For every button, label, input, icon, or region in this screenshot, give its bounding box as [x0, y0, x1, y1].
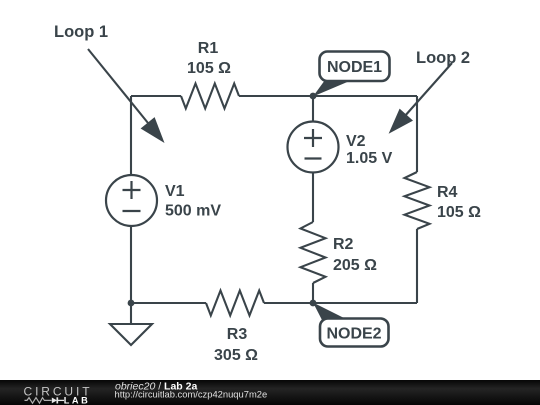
voltage source V2 — [288, 122, 393, 173]
footer bar — [0, 380, 540, 405]
svg-text:R2: R2 — [333, 236, 354, 253]
svg-text:105 Ω: 105 Ω — [187, 60, 231, 77]
wire bottom-left horizontal (ground node to R3) — [131, 302, 206, 304]
annotation Loop 1 arrow — [88, 49, 165, 143]
wire middle branch between V2 and R2 — [312, 172, 314, 222]
resistor R1 — [181, 40, 239, 109]
svg-text:105 Ω: 105 Ω — [437, 204, 481, 221]
svg-text:205 Ω: 205 Ω — [333, 257, 377, 274]
svg-text:Loop 1: Loop 1 — [54, 23, 108, 41]
resistor R3 — [206, 291, 264, 365]
node dot NODE1 junction — [310, 93, 317, 100]
svg-text:R4: R4 — [437, 184, 458, 201]
wire right branch lower (R4 to bottom-right corner) — [416, 229, 418, 303]
wire right branch upper (top-right corner to R4) — [416, 96, 418, 172]
svg-text:LAB: LAB — [64, 396, 91, 405]
node dot ground junction — [128, 300, 135, 307]
node NODE2 callout — [313, 303, 389, 347]
wire middle branch bottom (R2 to bottom wire) — [312, 283, 314, 303]
voltage source V1 — [106, 175, 221, 226]
svg-text:V1: V1 — [165, 183, 185, 200]
wire top horizontal from R1 to top-right corner — [239, 95, 417, 97]
node NODE1 callout — [313, 52, 390, 97]
svg-text:NODE1: NODE1 — [327, 59, 382, 76]
svg-text:1.05 V: 1.05 V — [346, 150, 393, 167]
annotation Loop 2 arrow — [389, 63, 452, 134]
svg-text:http://circuitlab.com/czp42nuq: http://circuitlab.com/czp42nuqu7m2e — [115, 389, 268, 400]
svg-text:Loop 2: Loop 2 — [416, 49, 470, 67]
svg-text:NODE2: NODE2 — [326, 326, 381, 343]
ground — [110, 303, 152, 345]
svg-text:R1: R1 — [198, 40, 219, 57]
resistor R4 — [405, 172, 482, 229]
wire top-left horizontal (node between V1 and R1) — [131, 95, 181, 97]
svg-text:305 Ω: 305 Ω — [214, 347, 258, 364]
svg-text:R3: R3 — [227, 326, 248, 343]
svg-text:500 mV: 500 mV — [165, 203, 221, 220]
wire bottom horizontal (R3 to bottom-right corner) — [264, 302, 417, 304]
svg-text:V2: V2 — [346, 133, 366, 150]
wire left branch lower (V1 bottom to ground node) — [130, 226, 132, 303]
wire left branch upper (corner to V1 top) — [130, 96, 132, 175]
CircuitLab logo — [24, 384, 93, 405]
wire middle branch top (top wire to V2) — [312, 96, 314, 122]
node dot NODE2 junction — [310, 300, 317, 307]
resistor R2 — [301, 222, 378, 283]
